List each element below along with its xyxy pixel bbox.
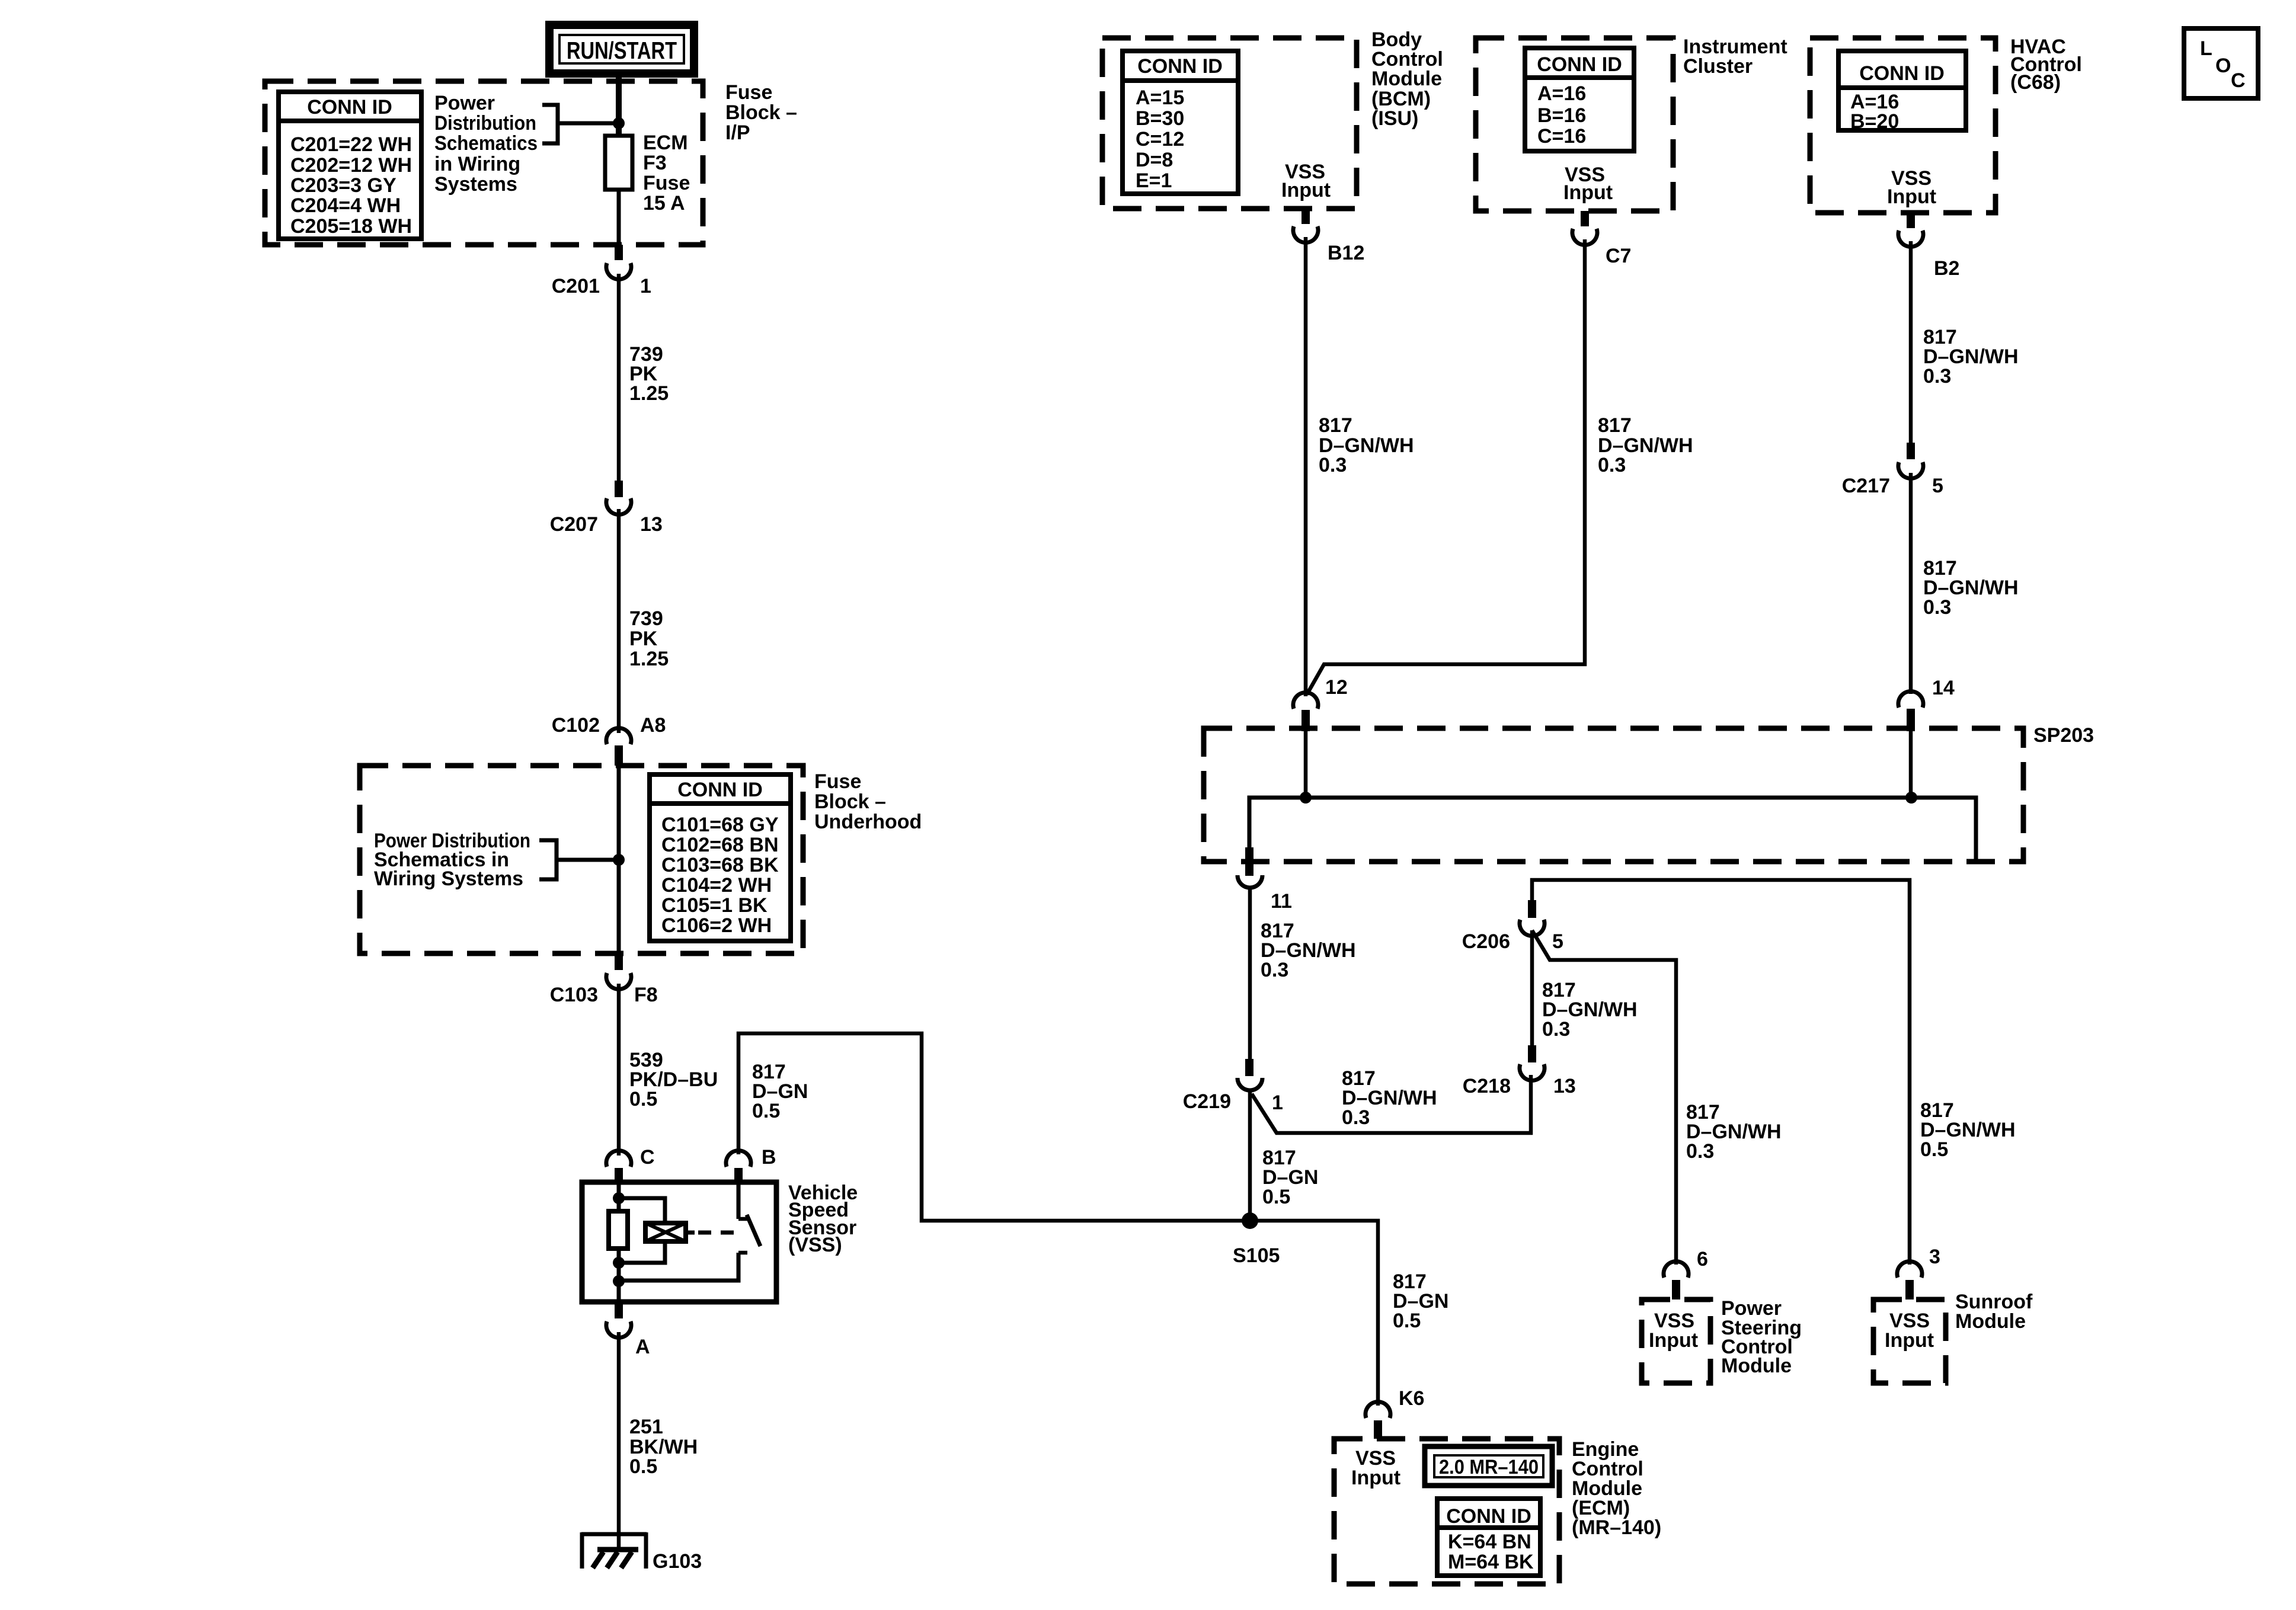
svg-text:C7: C7: [1606, 245, 1631, 267]
svg-text:I/P: I/P: [725, 121, 750, 144]
CONN ID table (HVAC): [1838, 51, 1966, 133]
ECM F3 Fuse 15 A label: [643, 132, 690, 215]
Instrument Cluster dashed box: [1476, 38, 1673, 211]
svg-text:CONN ID: CONN ID: [307, 96, 392, 119]
svg-text:0.3: 0.3: [1923, 596, 1951, 619]
svg-text:C217: C217: [1842, 475, 1890, 497]
svg-text:(VSS): (VSS): [788, 1234, 842, 1256]
svg-text:B2: B2: [1934, 257, 1959, 280]
svg-text:Cluster: Cluster: [1683, 55, 1753, 78]
connector C217 pin 5: [1842, 443, 1943, 497]
svg-text:A=15: A=15: [1136, 87, 1184, 109]
svg-text:C101=68 GY: C101=68 GY: [661, 814, 779, 836]
connector B12: [1293, 209, 1364, 264]
svg-text:Wiring Systems: Wiring Systems: [374, 868, 523, 890]
svg-text:ECM: ECM: [643, 132, 688, 154]
svg-text:C201: C201: [552, 275, 600, 297]
svg-text:Fuse: Fuse: [643, 172, 690, 194]
svg-text:Fuse: Fuse: [725, 81, 772, 104]
Power Distribution Schematics note (I/P): [434, 92, 538, 196]
wire 251 BK/WH 0.5 to ground: [619, 1332, 698, 1550]
svg-text:11: 11: [1271, 890, 1292, 913]
connector at SP203 pin 11: [1237, 847, 1292, 913]
wire 817 D-GN 0.5 from VSS B to S105: [738, 1033, 1378, 1406]
svg-text:C: C: [640, 1146, 655, 1169]
connector at SP203 pin 12: [1293, 676, 1348, 798]
fuse F3 element: [605, 136, 632, 190]
svg-text:CONN ID: CONN ID: [677, 779, 763, 801]
wire B2 to C217, label 817 D-GN/WH 0.3: [1911, 241, 2019, 443]
svg-text:C201=22 WH: C201=22 WH: [290, 133, 412, 156]
svg-text:Underhood: Underhood: [814, 811, 922, 833]
svg-text:0.3: 0.3: [1261, 959, 1288, 981]
svg-text:0.3: 0.3: [1342, 1106, 1370, 1129]
CONN ID table (Fuse Block I/P): [279, 92, 421, 239]
svg-text:0.5: 0.5: [629, 1088, 657, 1110]
wire C217 to SP203 pin 14, label 817 D-GN/WH 0.3: [1911, 473, 2019, 694]
connector C206 pin 5: [1462, 900, 1563, 953]
svg-text:0.5: 0.5: [752, 1100, 780, 1122]
svg-text:0.3: 0.3: [1686, 1140, 1714, 1163]
Fuse Block - Underhood dashed box: [360, 766, 803, 953]
svg-text:1.25: 1.25: [629, 648, 669, 670]
wire pin 11 to C219, label 817 D-GN/WH 0.3: [1250, 886, 1356, 1059]
connector C207 pin 13: [550, 481, 663, 536]
connector C201 pin 1: [552, 245, 651, 297]
Vehicle Speed Sensor box: [582, 1182, 776, 1302]
svg-text:15 A: 15 A: [643, 192, 685, 215]
svg-text:0.3: 0.3: [1542, 1018, 1570, 1041]
connector C219 pin 1: [1183, 1059, 1283, 1114]
svg-text:B=20: B=20: [1850, 110, 1899, 133]
svg-text:B=16: B=16: [1537, 104, 1586, 127]
svg-text:Module: Module: [1955, 1310, 2026, 1333]
svg-text:Systems: Systems: [434, 173, 517, 196]
svg-text:1: 1: [640, 275, 651, 297]
svg-text:B: B: [762, 1146, 776, 1169]
wire C219 to S105, label 817 D-GN 0.5: [1250, 1090, 1318, 1221]
VSS internal left wire: [617, 1182, 621, 1302]
node dot bus pin 12: [1300, 792, 1312, 804]
connector C7: [1572, 211, 1631, 267]
Power Steering VSS Input dashed box: [1642, 1299, 1710, 1383]
svg-text:(ISU): (ISU): [1371, 107, 1418, 130]
svg-text:Distribution: Distribution: [434, 112, 536, 135]
VSS Input label (HVAC): [1887, 167, 1936, 208]
splice bus wire inside SP203: [1249, 798, 1976, 859]
svg-text:Power: Power: [434, 92, 495, 114]
HVAC Control dashed box: [1810, 38, 1996, 213]
svg-text:C105=1 BK: C105=1 BK: [661, 894, 768, 917]
svg-text:C202=12 WH: C202=12 WH: [290, 154, 412, 177]
svg-text:0.3: 0.3: [1923, 365, 1951, 388]
CONN ID table (Instrument Cluster): [1525, 48, 1634, 151]
svg-text:Module: Module: [1371, 68, 1442, 90]
VSS Input label (ECM): [1351, 1447, 1400, 1489]
svg-text:0.5: 0.5: [629, 1455, 657, 1478]
Power Distribution Schematics note (Underhood): [374, 830, 530, 890]
svg-text:Input: Input: [1885, 1329, 1934, 1352]
wire C103 to VSS pin C, label 539 PK/D-BU 0.5: [619, 984, 718, 1156]
svg-text:CONN ID: CONN ID: [1137, 55, 1223, 78]
svg-text:0.3: 0.3: [1598, 454, 1626, 476]
svg-text:739: 739: [629, 607, 663, 630]
node junction in underhood box: [613, 854, 625, 866]
svg-text:0.5: 0.5: [1262, 1186, 1290, 1208]
svg-text:SP203: SP203: [2033, 724, 2094, 747]
svg-text:C=16: C=16: [1537, 125, 1586, 148]
wire C206 to C218, label 817 D-GN/WH 0.3: [1532, 930, 1638, 1045]
svg-text:C103=68 BK: C103=68 BK: [661, 854, 779, 876]
svg-text:A=16: A=16: [1537, 82, 1586, 105]
svg-text:in Wiring: in Wiring: [434, 153, 520, 175]
wire BCM B12 to SP203 pin 12, label 817 D-GN/WH 0.3: [1306, 237, 1414, 696]
svg-text:C204=4 WH: C204=4 WH: [290, 194, 401, 217]
Engine Control Module label: [1572, 1438, 1661, 1539]
svg-text:0.5: 0.5: [1393, 1310, 1421, 1332]
svg-text:E=1: E=1: [1136, 169, 1172, 192]
node dot bus pin 14: [1905, 792, 1917, 804]
svg-text:(MR–140): (MR–140): [1572, 1516, 1661, 1539]
svg-text:K6: K6: [1399, 1387, 1424, 1410]
CONN ID table (ECM): [1437, 1499, 1540, 1576]
LOC legend box: [2184, 28, 2258, 98]
svg-text:L: L: [2200, 37, 2212, 60]
svg-text:B12: B12: [1328, 242, 1364, 264]
svg-text:Fuse: Fuse: [814, 770, 861, 793]
Engine Control Module dashed box: [1334, 1439, 1559, 1584]
wire C219 pin1 to C218, label 817 D-GN/WH 0.3: [1252, 1067, 1531, 1133]
VSS node dot middle: [613, 1257, 625, 1269]
Sunroof Module label: [1955, 1291, 2033, 1333]
svg-text:251: 251: [629, 1416, 663, 1438]
CONN ID table (Underhood): [650, 774, 791, 941]
Fuse Block - I/P label: [725, 81, 797, 144]
svg-text:12: 12: [1325, 676, 1348, 699]
connector VSS pin A: [606, 1302, 650, 1358]
bracket from note to wire (Underhood): [539, 840, 618, 879]
svg-text:O: O: [2215, 55, 2231, 77]
connector VSS pin C: [606, 1146, 655, 1182]
svg-text:0.3: 0.3: [1319, 454, 1347, 476]
sensor coil (crossed box) inside VSS: [645, 1223, 695, 1241]
wire C206 branch to Power Steering pin 6: [1532, 930, 1676, 1265]
svg-text:6: 6: [1697, 1248, 1708, 1270]
svg-text:817: 817: [1598, 414, 1632, 437]
resistor inside VSS: [609, 1211, 628, 1249]
svg-text:C: C: [2231, 69, 2246, 92]
connector C102 pin A8: [552, 714, 666, 766]
svg-text:C207: C207: [550, 513, 598, 536]
connector Sunroof pin 3: [1897, 1246, 1940, 1299]
splice node S105: [1233, 1212, 1280, 1267]
Body Control Module dashed box: [1102, 38, 1357, 209]
wire fuse to box edge: [617, 190, 621, 245]
svg-text:D=8: D=8: [1136, 149, 1173, 171]
Fuse Block - I/P dashed box: [265, 81, 703, 245]
node junction at fuse feed: [613, 117, 625, 129]
svg-text:0.5: 0.5: [1920, 1138, 1948, 1161]
svg-text:A8: A8: [640, 714, 666, 737]
Power Steering Control Module label: [1721, 1297, 1802, 1377]
Vehicle Speed Sensor label: [788, 1182, 858, 1256]
svg-text:Block –: Block –: [725, 101, 797, 124]
svg-text:Input: Input: [1887, 185, 1936, 208]
svg-text:K=64 BN: K=64 BN: [1448, 1531, 1531, 1553]
svg-text:1: 1: [1272, 1092, 1283, 1114]
svg-text:CONN ID: CONN ID: [1537, 53, 1622, 76]
switch inside VSS: [619, 1182, 760, 1281]
wire C207 to C102, label 739 PK 1.25: [619, 509, 669, 733]
Fuse Block - Underhood label: [814, 770, 922, 833]
svg-text:Schematics: Schematics: [434, 132, 538, 155]
wire SP203 feed to C206 and Sunroof: [1532, 880, 1910, 1265]
Instrument Cluster label: [1683, 36, 1787, 78]
svg-text:F3: F3: [643, 152, 667, 174]
svg-text:13: 13: [1553, 1075, 1576, 1097]
VSS node dot top: [613, 1192, 625, 1204]
svg-text:Input: Input: [1649, 1329, 1698, 1352]
wire through underhood box: [617, 766, 621, 954]
connector at SP203 pin 14: [1898, 677, 1955, 798]
svg-text:C=12: C=12: [1136, 128, 1184, 151]
svg-text:1.25: 1.25: [629, 382, 669, 405]
svg-text:CONN ID: CONN ID: [1446, 1505, 1531, 1528]
CONN ID table (BCM): [1123, 51, 1238, 194]
VSS Input label (BCM): [1281, 161, 1331, 201]
svg-text:C106=2 WH: C106=2 WH: [661, 914, 772, 937]
connector K6: [1366, 1387, 1424, 1439]
svg-text:14: 14: [1932, 677, 1955, 699]
svg-text:C102: C102: [552, 714, 600, 737]
svg-text:CONN ID: CONN ID: [1859, 62, 1945, 85]
connector Power Steering pin 6: [1664, 1248, 1708, 1299]
SP203 splice pack dashed box: [1204, 724, 2094, 862]
svg-text:Input: Input: [1351, 1467, 1400, 1489]
wire S105 to ECM K6, label 817 D-GN 0.5: [1393, 1270, 1448, 1332]
svg-text:(C68): (C68): [2010, 71, 2061, 94]
svg-text:3: 3: [1929, 1246, 1940, 1268]
svg-text:Module: Module: [1721, 1355, 1792, 1377]
wire to Sunroof pin 3 label 817 D-GN/WH 0.5: [1920, 1099, 2016, 1161]
mechanical link dashed: [698, 1231, 736, 1235]
ground G103: [581, 1532, 702, 1573]
svg-text:RUN/START: RUN/START: [567, 37, 677, 64]
svg-text:G103: G103: [653, 1550, 702, 1573]
svg-text:C206: C206: [1462, 930, 1510, 953]
connector C218 pin 13: [1463, 1045, 1576, 1097]
svg-text:M=64 BK: M=64 BK: [1448, 1551, 1534, 1573]
coil branch wiring inside VSS: [619, 1198, 665, 1263]
Sunroof VSS Input dashed box: [1873, 1299, 1946, 1383]
svg-text:Block –: Block –: [814, 790, 886, 813]
connector B2: [1898, 213, 1959, 280]
connector C103 pin F8: [550, 953, 658, 1006]
svg-text:13: 13: [640, 513, 663, 536]
RUN/START power feed box: [549, 25, 694, 73]
svg-text:F8: F8: [634, 984, 658, 1006]
connector VSS pin B: [726, 1146, 776, 1182]
VSS Input label (Instrument Cluster): [1563, 164, 1613, 204]
svg-text:2.0 MR–140: 2.0 MR–140: [1439, 1456, 1539, 1478]
svg-text:C103: C103: [550, 984, 598, 1006]
svg-text:817: 817: [1319, 414, 1352, 437]
wire to Power Steering pin 6 label 817 D-GN/WH 0.3: [1686, 1101, 1782, 1163]
wire C201 to C207, label 739 PK 1.25: [619, 274, 669, 481]
wire RUN/START to fuse: [616, 73, 622, 136]
wire Instrument Cluster C7 to junction 12, label 817 D-GN/WH 0.3: [1307, 239, 1693, 694]
svg-text:C218: C218: [1463, 1075, 1511, 1097]
svg-text:B=30: B=30: [1136, 107, 1184, 130]
bracket from note to wire (I/P): [542, 105, 618, 143]
svg-text:Input: Input: [1563, 181, 1613, 204]
svg-text:5: 5: [1552, 930, 1563, 953]
svg-text:A: A: [635, 1336, 650, 1358]
2.0 MR-140 box: [1425, 1446, 1552, 1486]
svg-text:5: 5: [1932, 475, 1943, 497]
svg-text:C203=3 GY: C203=3 GY: [290, 174, 396, 197]
svg-text:C219: C219: [1183, 1090, 1231, 1113]
svg-text:C102=68 BN: C102=68 BN: [661, 834, 779, 856]
svg-text:Input: Input: [1281, 179, 1331, 201]
svg-text:S105: S105: [1233, 1244, 1280, 1267]
svg-text:C205=18 WH: C205=18 WH: [290, 215, 412, 238]
Body Control Module label: [1371, 28, 1443, 130]
VSS node dot bottom: [613, 1275, 625, 1287]
HVAC Control label: [2010, 36, 2082, 94]
svg-text:C104=2 WH: C104=2 WH: [661, 874, 772, 897]
svg-text:PK: PK: [629, 628, 658, 650]
